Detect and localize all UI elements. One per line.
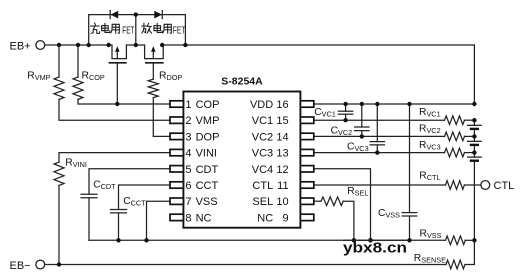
svg-text:5: 5 — [185, 164, 191, 176]
svg-text:VC4: VC4 — [252, 164, 273, 176]
svg-text:2: 2 — [185, 115, 191, 127]
svg-text:1: 1 — [185, 99, 191, 111]
svg-text:15: 15 — [276, 115, 288, 127]
svg-text:VINI: VINI — [196, 148, 217, 160]
svg-text:CCDT: CCDT — [93, 180, 116, 192]
svg-text:CCCT: CCCT — [123, 196, 146, 208]
svg-text:3: 3 — [185, 131, 191, 143]
svg-text:RVC2: RVC2 — [419, 124, 441, 136]
svg-text:EB−: EB− — [10, 260, 31, 272]
svg-text:FET: FET — [173, 24, 186, 36]
svg-text:RVMP: RVMP — [27, 71, 50, 83]
svg-text:VC2: VC2 — [252, 131, 273, 143]
svg-text:RSEL: RSEL — [347, 186, 368, 198]
svg-text:NC: NC — [196, 212, 212, 224]
svg-text:CTL: CTL — [252, 180, 273, 192]
svg-text:VMP: VMP — [196, 115, 220, 127]
svg-text:9: 9 — [282, 212, 288, 224]
svg-text:7: 7 — [185, 196, 191, 208]
svg-text:VDD: VDD — [250, 99, 273, 111]
svg-text:4: 4 — [185, 148, 191, 160]
svg-text:12: 12 — [276, 164, 288, 176]
svg-text:8: 8 — [185, 212, 191, 224]
svg-text:16: 16 — [276, 99, 288, 111]
svg-text:VC3: VC3 — [252, 148, 273, 160]
svg-text:RVSS: RVSS — [420, 229, 442, 241]
svg-text:RVC3: RVC3 — [419, 140, 441, 152]
svg-text:6: 6 — [185, 180, 191, 192]
svg-text:11: 11 — [277, 180, 288, 192]
svg-text:DOP: DOP — [196, 131, 220, 143]
svg-text:CVC3: CVC3 — [347, 141, 369, 153]
svg-text:RDOP: RDOP — [159, 71, 182, 83]
svg-text:EB+: EB+ — [10, 41, 31, 53]
svg-text:SEL: SEL — [252, 196, 273, 208]
svg-text:CVSS: CVSS — [378, 208, 400, 220]
svg-text:CVC1: CVC1 — [314, 107, 336, 119]
svg-text:13: 13 — [276, 148, 288, 160]
svg-text:RVINI: RVINI — [65, 157, 87, 169]
svg-text:CTL: CTL — [494, 180, 515, 192]
svg-text:RVC1: RVC1 — [419, 107, 441, 119]
svg-text:RCOP: RCOP — [82, 71, 105, 83]
svg-text:CDT: CDT — [196, 164, 219, 176]
svg-text:VC1: VC1 — [252, 115, 273, 127]
svg-text:CVC2: CVC2 — [331, 125, 353, 137]
svg-text:CCT: CCT — [196, 180, 219, 192]
svg-text:ybx8.cn: ybx8.cn — [343, 240, 407, 257]
svg-text:14: 14 — [276, 131, 288, 143]
svg-text:10: 10 — [276, 196, 288, 208]
svg-text:FET: FET — [122, 24, 135, 36]
svg-text:RCTL: RCTL — [419, 171, 440, 183]
svg-text:S-8254A: S-8254A — [221, 76, 263, 88]
svg-text:VSS: VSS — [196, 196, 218, 208]
svg-text:NC: NC — [257, 212, 273, 224]
svg-text:RSENSE: RSENSE — [414, 253, 446, 265]
svg-text:COP: COP — [196, 99, 220, 111]
